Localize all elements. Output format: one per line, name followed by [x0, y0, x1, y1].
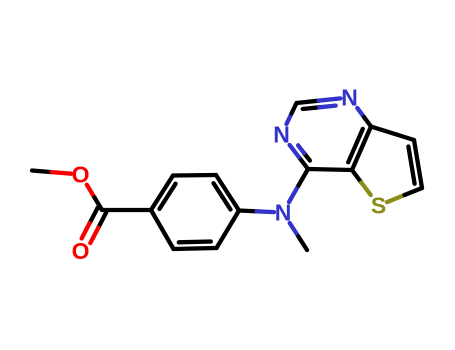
- thiophene double bond C6=C7: [408, 140, 422, 188]
- pyrimidine double bond C4=N3: [290, 145, 310, 169]
- bond C4a-S (thiophene): [352, 170, 371, 195]
- svg-text:N: N: [341, 85, 358, 111]
- bond benzene C4 to amine N: [239, 211, 274, 213]
- fusion double bond C4a=C7a: [348, 127, 371, 171]
- svg-text:N: N: [273, 122, 290, 148]
- bond amine N to pyrimidine C4: [289, 169, 308, 202]
- bond C-C1 (carbonyl to benzene C1): [102, 208, 151, 212]
- benzene double bond C5=C6 (bottom edge): [174, 242, 217, 250]
- thiophene bond C7-C7a: [371, 127, 414, 141]
- bond amine N to N-methyl: [290, 223, 307, 250]
- benzene double bond C3=C4: [214, 175, 240, 211]
- bond S-C6 (thiophene): [387, 188, 422, 202]
- double bond C=O (carbonyl): [82, 208, 107, 243]
- benzene bond C6-C1: [151, 210, 174, 249]
- pyrimidine bond N3-C2: [287, 103, 297, 124]
- benzene bond C4-C5: [217, 211, 240, 249]
- bond CH3-O (ester methyl to O): [32, 171, 71, 174]
- pyrimidine bond N1-C7a: [357, 108, 371, 127]
- pyrimidine double bond C2=N1: [297, 98, 341, 109]
- pyrimidine bond C4-C4a: [308, 169, 352, 170]
- svg-text:S: S: [371, 193, 386, 219]
- svg-text:O: O: [72, 161, 90, 187]
- svg-text:N: N: [275, 200, 292, 226]
- svg-text:O: O: [72, 238, 90, 264]
- benzene bond C2-C3 (top edge): [173, 173, 216, 178]
- benzene double bond C1=C2: [151, 176, 176, 211]
- bond O-C (ester O to carbonyl C): [87, 185, 102, 210]
